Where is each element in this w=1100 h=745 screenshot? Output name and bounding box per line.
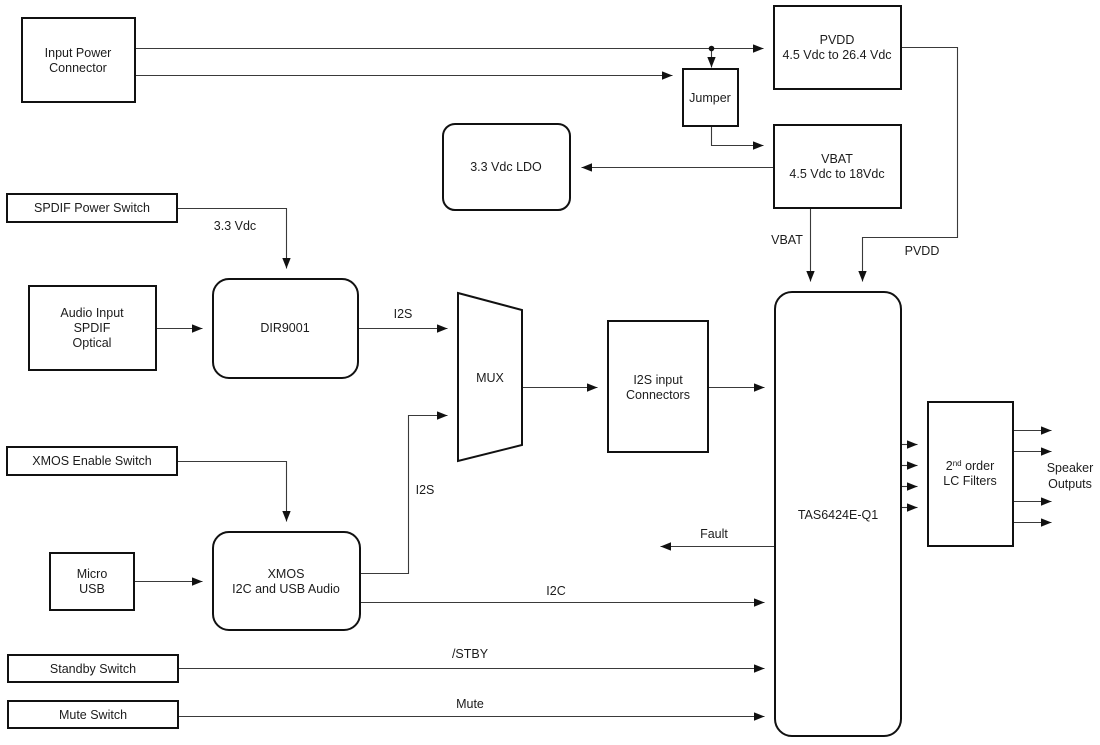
svg-text:VBAT: VBAT <box>771 233 803 247</box>
svg-text:SPDIF Power Switch: SPDIF Power Switch <box>34 201 150 215</box>
svg-text:I2S: I2S <box>416 483 435 497</box>
svg-text:Outputs: Outputs <box>1048 477 1092 491</box>
svg-text:3.3 Vdc: 3.3 Vdc <box>214 219 256 233</box>
svg-text:SPDIF: SPDIF <box>74 321 111 335</box>
svg-text:LC Filters: LC Filters <box>943 474 996 488</box>
svg-text:TAS6424E-Q1: TAS6424E-Q1 <box>798 508 878 522</box>
svg-text:DIR9001: DIR9001 <box>260 321 309 335</box>
svg-text:Mute: Mute <box>456 697 484 711</box>
svg-text:I2C: I2C <box>546 584 565 598</box>
svg-text:VBAT: VBAT <box>821 152 853 166</box>
svg-text:Connector: Connector <box>49 61 107 75</box>
svg-text:USB: USB <box>79 582 105 596</box>
svg-text:4.5 Vdc to 18Vdc: 4.5 Vdc to 18Vdc <box>789 167 884 181</box>
svg-text:Optical: Optical <box>73 336 112 350</box>
svg-text:Jumper: Jumper <box>689 91 731 105</box>
svg-text:XMOS Enable Switch: XMOS Enable Switch <box>32 454 152 468</box>
svg-text:Fault: Fault <box>700 527 728 541</box>
svg-text:MUX: MUX <box>476 371 504 385</box>
svg-text:Micro: Micro <box>77 567 108 581</box>
svg-text:Audio Input: Audio Input <box>60 306 124 320</box>
svg-text:4.5 Vdc to 26.4 Vdc: 4.5 Vdc to 26.4 Vdc <box>782 48 891 62</box>
svg-text:I2S input: I2S input <box>633 373 683 387</box>
svg-text:I2C and USB Audio: I2C and USB Audio <box>232 582 340 596</box>
svg-text:Speaker: Speaker <box>1047 461 1094 475</box>
svg-text:Mute Switch: Mute Switch <box>59 708 127 722</box>
svg-text:XMOS: XMOS <box>268 567 305 581</box>
svg-text:3.3 Vdc LDO: 3.3 Vdc LDO <box>470 160 542 174</box>
svg-text:Standby Switch: Standby Switch <box>50 662 136 676</box>
svg-text:/STBY: /STBY <box>452 647 489 661</box>
svg-text:Input Power: Input Power <box>45 46 112 60</box>
svg-text:PVDD: PVDD <box>905 244 940 258</box>
svg-text:I2S: I2S <box>394 307 413 321</box>
svg-text:PVDD: PVDD <box>820 33 855 47</box>
svg-text:Connectors: Connectors <box>626 388 690 402</box>
